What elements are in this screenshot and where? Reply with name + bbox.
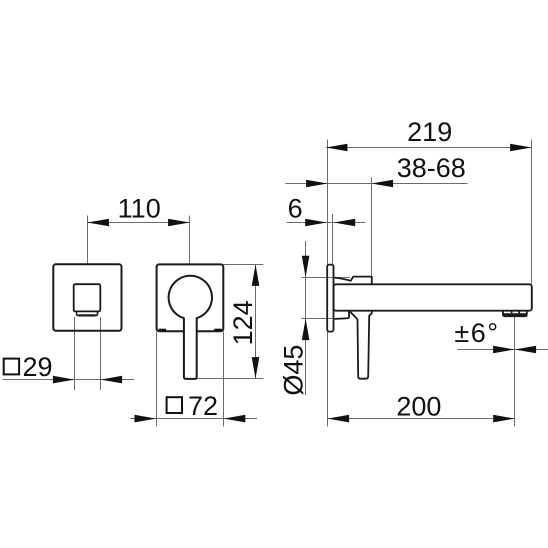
wire dimension line pm6 [457,349,548,351]
arrow 29 right [101,376,123,384]
wire extension line outlet left [74,317,76,390]
wire extension line plate72 left [156,332,158,427]
wire extension line spout end [531,140,533,284]
wire extension line outlet right [100,317,102,390]
arrow 6 left [305,219,327,227]
wire extension line handle center left view [87,216,89,265]
wire dimension line 45 vertical [305,241,307,395]
lever wedge side view [349,311,358,319]
arrow pm6 left [493,346,514,354]
arrow 6 right [334,219,356,227]
wire extension line d45 top [301,277,350,279]
arrow 219 right [510,144,531,152]
arrow 29 left [53,376,75,384]
arrow 38-68 left [306,180,328,188]
svg-text:±6°: ±6° [454,318,499,348]
valve trim lower dome [334,317,349,320]
spout side view [334,284,532,310]
wire dimension line 6 [287,222,366,224]
square symbol for 29 [4,359,19,375]
aerator grooves [512,311,520,314]
wire dimension line 200 [328,418,515,420]
svg-text:200: 200 [396,391,441,421]
wire dimension line 72 [130,418,257,420]
aerator bottom band [504,313,527,316]
arrow 72 right [224,415,246,423]
svg-text:6: 6 [288,194,303,224]
wire extension line 124 bottom [197,378,264,380]
svg-text:38-68: 38-68 [397,153,466,183]
mixer escutcheon square front view [157,264,224,331]
square symbol for 72 [167,397,182,413]
outlet spout front face [74,284,101,311]
arrow 110 right [168,219,190,227]
svg-text:110: 110 [118,194,161,224]
arrow 38-68 right [372,180,394,188]
svg-text:72: 72 [188,391,218,421]
wire dimension line 38-68 [285,183,467,185]
arrow pm6 right [515,346,537,354]
wire extension line sleeve right [371,178,373,277]
wire extension line aerator axis [514,317,516,427]
wire dimension line 124 vertical [255,265,257,379]
lever handle side view [358,311,372,379]
svg-text:29: 29 [23,352,53,382]
wire dimension line 219 [326,147,532,149]
plate mounting dash left [158,329,166,331]
arrow 110 left [87,219,109,227]
arrow 124 bottom [252,357,260,379]
wire extension line spout center front view [189,216,191,265]
wire extension line plate72 right [223,332,225,427]
outlet aerator front [77,311,98,316]
arrow 219 left [326,144,348,152]
svg-text:Ø45: Ø45 [278,345,308,396]
wire extension line wall left [327,140,329,427]
wire extension line plate front [332,214,334,264]
valve trim upper dome [334,277,372,285]
arrow 200 right [493,415,515,423]
lever handle front view keyhole [169,276,212,379]
svg-text:124: 124 [228,300,258,345]
arrow d45 bottom [302,319,310,341]
wire dimension line 110 [88,222,190,224]
arrow 72 left [135,415,157,423]
wire extension line d45 bottom [301,318,347,320]
arrow d45 top [302,256,310,277]
plate mounting dash right [214,329,222,331]
aerator side view [503,311,527,317]
wall plate side view [327,265,333,332]
wire dimension line 29 [3,379,135,381]
outlet escutcheon square left view [53,264,121,331]
arrow 200 left [328,415,350,423]
wire extension line 124 top [223,264,263,266]
svg-text:219: 219 [407,117,452,147]
arrow 124 top [252,264,260,286]
